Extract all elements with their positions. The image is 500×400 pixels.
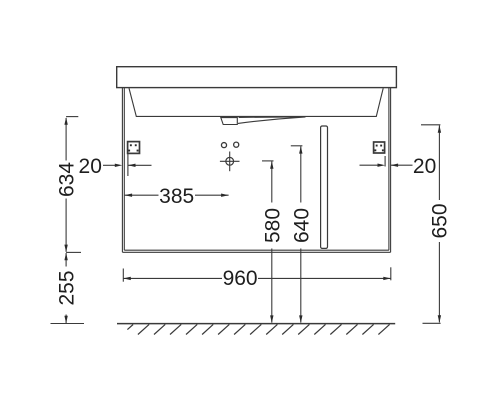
- svg-text:20: 20: [413, 155, 436, 178]
- cabinet bottom: [122, 250, 390, 252]
- left bracket: [128, 142, 140, 154]
- svg-text:255: 255: [55, 270, 78, 305]
- ground hatching: [127, 324, 389, 334]
- dimension 640: [291, 146, 303, 323]
- faucet hole crosshair: [220, 152, 240, 172]
- dimension 960: [123, 267, 391, 281]
- small hole circle right: [234, 142, 239, 147]
- dimension 634: [64, 117, 81, 253]
- cabinet right wall: [389, 88, 391, 253]
- right bracket: [374, 142, 385, 153]
- dimension 20 right: [360, 156, 413, 167]
- svg-text:640: 640: [290, 208, 313, 243]
- ground line: [117, 323, 395, 325]
- countertop: [117, 67, 397, 88]
- dimension 20 left: [103, 153, 152, 177]
- cabinet left wall: [122, 88, 124, 253]
- dimension 580: [262, 161, 274, 323]
- small hole circle left: [221, 143, 226, 148]
- svg-text:960: 960: [223, 267, 258, 290]
- dimension 650: [421, 125, 441, 323]
- dimension 255: [51, 253, 85, 324]
- svg-text:634: 634: [55, 162, 78, 197]
- svg-text:20: 20: [79, 155, 102, 178]
- svg-text:580: 580: [261, 208, 284, 243]
- interior partition: [321, 126, 328, 248]
- drain trap: [221, 117, 306, 125]
- basin bowl: [129, 88, 383, 116]
- svg-text:650: 650: [429, 203, 452, 238]
- dimension 385: [125, 194, 229, 197]
- svg-text:385: 385: [159, 185, 194, 208]
